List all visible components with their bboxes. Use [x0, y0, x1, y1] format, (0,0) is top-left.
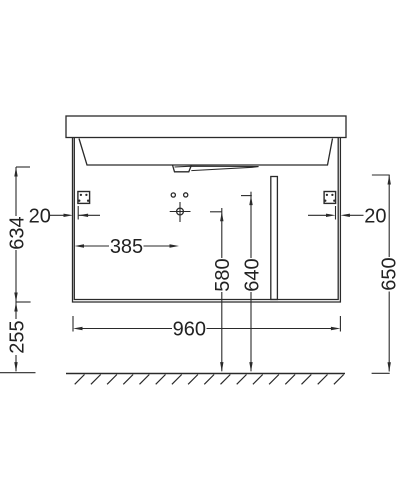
svg-text:385: 385 — [110, 236, 143, 258]
svg-text:255: 255 — [6, 320, 28, 353]
svg-text:634: 634 — [6, 216, 28, 249]
svg-text:960: 960 — [173, 319, 206, 341]
svg-text:20: 20 — [364, 205, 386, 227]
svg-text:580: 580 — [212, 258, 234, 291]
svg-text:20: 20 — [29, 205, 51, 227]
svg-text:650: 650 — [379, 257, 400, 290]
svg-text:640: 640 — [241, 258, 263, 291]
